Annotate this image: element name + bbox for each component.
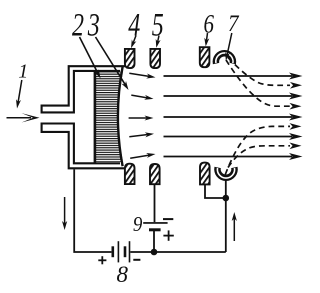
beam line 5 (164, 156, 293, 158)
label-7 pointer arrow (227, 33, 232, 56)
svg-text:3: 3 (87, 7, 100, 44)
deflected trajectory 3 (from bottom arc, upper) (225, 126, 290, 174)
label-4 pointer arrow (133, 36, 137, 45)
battery 9 plate (long thin) (143, 222, 167, 224)
battery 8 plate 2 (short thick) (124, 246, 127, 257)
emitted beam arrow 5 (130, 155, 151, 159)
arc electrode 7' (bottom) (214, 167, 238, 181)
cathode concave surface 3 (118, 67, 123, 166)
deflected trajectory 1 (from top arc, upper) (228, 58, 290, 86)
battery 8 minus sign (133, 259, 140, 261)
current arrow (down) on left leg (64, 197, 66, 226)
beam line 3 (164, 116, 293, 118)
junction node A (151, 249, 158, 256)
electrode 5 (top aperture) (150, 49, 160, 68)
cathode block 2 hatch (96, 72, 123, 162)
svg-text:6: 6 (203, 11, 214, 40)
battery 8 plate (long thin) (118, 241, 120, 262)
svg-text:7: 7 (228, 10, 239, 36)
svg-text:8: 8 (116, 262, 128, 287)
svg-text:1: 1 (18, 60, 28, 82)
deflected trajectory 4 (from bottom arc, lower) (228, 146, 290, 168)
battery 8 plate 2 (long thin) (129, 241, 131, 262)
electrode 4 (top aperture) (125, 49, 135, 68)
label-3 pointer arrow (96, 37, 127, 87)
emitted beam arrow 3 (129, 117, 150, 119)
beam line 2 (164, 95, 293, 97)
battery 8 plus sign (98, 259, 106, 261)
svg-text:9: 9 (133, 213, 143, 236)
label-5 pointer arrow (157, 36, 159, 44)
beam line 1 (164, 75, 293, 77)
wire: battery 9 to electrode 5' (154, 184, 156, 222)
current arrow (up) on right leg (233, 216, 235, 241)
svg-text:4: 4 (128, 7, 140, 44)
electrode 5' (bottom aperture) (150, 164, 160, 184)
wire: junction B to electrode 6' (205, 184, 226, 198)
electrode 4' (bottom aperture) (125, 164, 135, 184)
arc electrode 7 (top) (213, 50, 237, 64)
gas inlet arrow (7, 117, 32, 119)
battery 9 plus sign (163, 235, 173, 237)
wire: junction B to arc 7' (225, 180, 227, 198)
wire: right leg up (225, 198, 227, 252)
battery 9 plate (short thick) (149, 228, 161, 231)
battery 9 minus sign (163, 218, 173, 220)
wire: chamber to battery 8 (left leg) (74, 169, 111, 252)
label-2 pointer arrow (80, 37, 99, 75)
deflected trajectory 2 (from top arc, lower) (226, 60, 290, 106)
emitted beam arrow 1 (129, 73, 151, 77)
wire: junction to battery 9 (153, 231, 155, 252)
wire: junction to bottom right corner (154, 251, 226, 253)
junction node B (223, 195, 230, 202)
beam line 4 (164, 136, 293, 138)
label-6 pointer arrow (206, 33, 207, 43)
cathode left edge (94, 71, 97, 164)
chamber upper wall (42, 66, 127, 112)
electrode 6' (bottom plate) (200, 163, 210, 185)
electrode 6 (top plate) (200, 47, 210, 67)
chamber lower wall (42, 124, 127, 169)
emitted beam arrow 2 (131, 95, 149, 98)
wire: battery 8 to junction (130, 251, 154, 253)
label-1 pointer arrow (18, 80, 22, 105)
emitted beam arrow 4 (129, 134, 150, 137)
battery 8 plate (short thick) (112, 246, 115, 257)
svg-text:2: 2 (72, 7, 84, 44)
